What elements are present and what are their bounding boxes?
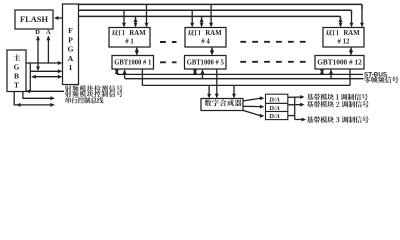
main GBT module <box>7 50 26 92</box>
wire RF control signal <box>23 91 54 98</box>
label serial control bus <box>66 97 104 103</box>
wire serial control bus <box>14 91 53 105</box>
DAC D/A #1 <box>266 94 288 103</box>
svg-text:D/A: D/A <box>268 105 281 112</box>
RAM U3 dual-port #4 <box>185 28 226 48</box>
wire bus2 corner <box>351 10 353 13</box>
wire GBT side vertical bus <box>29 63 31 91</box>
label baseband 2 <box>307 101 369 108</box>
svg-text:RAM: RAM <box>343 30 360 37</box>
svg-text:# 12: # 12 <box>338 39 350 46</box>
wire RAM4-GBT5 <box>211 48 213 55</box>
RAM U4 dual-port #12 <box>323 28 364 48</box>
svg-text:GBT1000 # 5: GBT1000 # 5 <box>187 60 225 67</box>
DAC D/A #3 <box>266 112 288 120</box>
wire GBT collect line <box>142 84 350 86</box>
wire GBT5 bottom taps <box>194 70 196 74</box>
svg-text:D/A: D/A <box>268 113 281 120</box>
svg-text:D: D <box>35 29 40 36</box>
svg-text:T: T <box>14 81 19 90</box>
RAM U2 dual-port #1 <box>109 28 150 48</box>
wire ST-BUS <box>117 73 363 75</box>
memory FLASH <box>15 10 53 29</box>
DDS digital synthesizer <box>201 99 243 111</box>
modem GBT1000 #12 <box>315 56 364 70</box>
wire mod signal 1 <box>288 96 303 98</box>
svg-text:G: G <box>14 63 20 72</box>
wire DA output bus vertical <box>294 97 296 119</box>
wire mod signal 3 <box>288 115 295 117</box>
svg-text:P: P <box>68 35 73 44</box>
wire GBT-FPGA address <box>26 62 61 64</box>
svg-text:1: 1 <box>69 63 73 72</box>
wire bus1 corner <box>361 4 363 10</box>
svg-text:A: A <box>68 54 74 63</box>
svg-text:D/A: D/A <box>268 97 281 104</box>
label RF detect signal <box>65 85 123 91</box>
wire GBT-FPGA data <box>30 70 61 72</box>
svg-text:GBT1000 # 12: GBT1000 # 12 <box>317 60 362 67</box>
svg-text:RAM: RAM <box>129 30 146 37</box>
modem GBT1000 #5 <box>185 56 227 70</box>
svg-text:# 4: # 4 <box>201 39 210 46</box>
wire FLASH A bus <box>47 36 49 63</box>
wire GBT1 bottom taps <box>116 70 118 74</box>
FPGA U1 FPGA1 <box>63 4 79 85</box>
wire synth to DA2 <box>243 105 261 107</box>
wire bus3 corner <box>340 16 342 19</box>
wire FLASH D bus <box>37 36 39 70</box>
dashed GBT row continuation <box>160 61 306 64</box>
wire top bus line 2 <box>79 9 352 11</box>
wire synth feed left <box>208 85 210 97</box>
label baseband 1 <box>307 94 368 101</box>
label zero frame signal <box>364 76 399 83</box>
wire RF detect signal <box>27 90 65 92</box>
dashed RAM row continuation <box>160 41 306 43</box>
wire top bus line 3 <box>79 15 341 17</box>
svg-text:FLASH: FLASH <box>20 15 48 24</box>
svg-text:RAM: RAM <box>205 30 222 37</box>
wire FPGA1 to FLASH <box>56 17 63 19</box>
svg-text:B: B <box>14 72 19 81</box>
svg-text:A: A <box>46 29 51 36</box>
DAC D/A #2 <box>266 103 288 111</box>
wire synth to DA3 <box>243 110 261 115</box>
wire RAM1-GBT1 <box>136 48 138 55</box>
modem GBT1000 #1 <box>112 56 154 70</box>
label baseband 3 <box>307 116 369 123</box>
svg-text:F: F <box>68 26 73 35</box>
wire GBT12 bottom taps <box>321 70 323 74</box>
wire mod signal 2 <box>288 104 303 106</box>
wire bus taps to RAM12 <box>340 17 342 26</box>
wire zero frame signal <box>125 78 364 80</box>
label RF control signal <box>65 91 123 97</box>
wire bus taps to RAM4 <box>191 10 193 26</box>
wire bus taps to RAM1 <box>123 10 125 26</box>
wire synth feed right <box>233 85 235 97</box>
svg-text:GBT1000 # 1: GBT1000 # 1 <box>114 60 152 67</box>
svg-text:G: G <box>67 45 73 54</box>
svg-text:# 1: # 1 <box>125 39 134 46</box>
wire GBT-FPGA control bidir <box>32 76 62 78</box>
wire synth to DA1 <box>243 98 261 101</box>
wire top bus line 1 <box>79 3 363 5</box>
wire RAM12-GBT12 <box>350 48 352 55</box>
